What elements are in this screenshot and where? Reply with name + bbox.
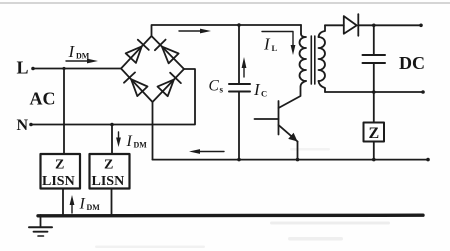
svg-text:DC: DC xyxy=(399,53,425,73)
svg-text:Z: Z xyxy=(55,158,64,173)
svg-text:s: s xyxy=(220,85,224,95)
current arrow IDM on L line xyxy=(66,42,98,63)
label N xyxy=(17,117,29,134)
capacitor C2 output xyxy=(363,25,386,92)
transformer T core xyxy=(311,36,315,84)
LISN 1 box xyxy=(41,154,81,189)
junction node top rail / Cs xyxy=(237,23,241,27)
node top rail end xyxy=(419,24,423,28)
svg-text:I: I xyxy=(68,42,76,61)
svg-text:DM: DM xyxy=(76,52,90,61)
diode D1 (bridge top-left) xyxy=(126,40,149,63)
impedance Z load xyxy=(364,92,385,160)
wire DC bottom rail xyxy=(325,91,423,93)
wire N to LISN2 xyxy=(111,125,113,155)
current arrow IC xyxy=(242,57,247,77)
current arrow rectified output xyxy=(179,29,211,34)
node bottom rail end xyxy=(421,90,425,94)
transformer T secondary winding xyxy=(319,25,326,92)
scan top streak xyxy=(0,2,450,4)
node L xyxy=(31,67,35,71)
label IDM near LISN2 xyxy=(126,133,148,150)
svg-text:Z: Z xyxy=(369,125,380,142)
wire LISN2 to ground bus xyxy=(111,189,113,216)
scan smudge marks xyxy=(95,148,390,248)
current arrow IDM into LISN2 xyxy=(116,132,121,147)
svg-text:C: C xyxy=(261,89,267,99)
current arrow IL xyxy=(262,32,295,56)
junction node return / Cs xyxy=(237,158,241,162)
diode D2 (bridge top-right) xyxy=(155,40,179,64)
svg-text:I: I xyxy=(263,35,271,54)
wire N line to bridge right vertex xyxy=(31,69,195,125)
junction node L / LISN1 xyxy=(62,67,65,70)
junction node bottom rail / Z xyxy=(372,90,376,94)
junction node return / emitter xyxy=(296,158,300,162)
svg-text:N: N xyxy=(17,117,29,134)
junction node top rail / output cap xyxy=(372,24,376,28)
svg-text:AC: AC xyxy=(30,89,56,109)
capacitor Cs xyxy=(229,25,250,160)
node N xyxy=(29,123,33,127)
wire emitter to return rail xyxy=(297,142,299,160)
svg-text:I: I xyxy=(126,133,133,150)
transformer T primary winding xyxy=(300,25,307,81)
wire bridge bottom vertex down xyxy=(152,102,154,160)
junction node N / LISN2 xyxy=(110,123,114,127)
svg-text:I: I xyxy=(253,80,261,99)
diode D5 output rectifier xyxy=(325,14,358,36)
label Cs xyxy=(209,78,224,95)
svg-text:L: L xyxy=(272,43,278,53)
svg-text:DM: DM xyxy=(87,203,101,212)
svg-text:C: C xyxy=(209,78,220,95)
svg-text:LISN: LISN xyxy=(42,174,75,189)
diode D3 (bridge bottom-left) xyxy=(124,72,148,96)
junction node return / Z xyxy=(372,158,376,162)
LISN 2 box xyxy=(90,154,130,189)
svg-text:I: I xyxy=(79,196,86,213)
wire bridge diamond xyxy=(121,36,184,102)
label L xyxy=(17,58,29,78)
label DC xyxy=(399,53,425,73)
svg-text:LISN: LISN xyxy=(92,174,125,189)
ground bus (thick) xyxy=(38,213,423,217)
node return rail end xyxy=(426,158,430,162)
wire L line xyxy=(33,68,121,70)
current arrow IDM ground return xyxy=(70,195,75,213)
wire L to LISN1 xyxy=(63,69,65,155)
transistor Q1 collector wire from primary xyxy=(279,81,307,108)
svg-text:Z: Z xyxy=(104,158,113,173)
label IL xyxy=(263,35,278,54)
wire DC top rail xyxy=(358,24,421,26)
ground xyxy=(29,215,52,236)
label IDM ground return xyxy=(79,196,101,213)
label IC xyxy=(253,80,267,99)
wire LISN1 to ground bus xyxy=(62,189,64,216)
transistor Q1 xyxy=(255,101,298,142)
wire return rail xyxy=(153,159,429,161)
svg-text:DM: DM xyxy=(134,141,148,150)
svg-text:L: L xyxy=(17,58,29,78)
wire bridge top vertex to top rail xyxy=(152,25,302,36)
diode D4 (bridge bottom-right) xyxy=(158,73,181,97)
current arrow return xyxy=(189,149,224,154)
label AC xyxy=(30,89,56,109)
